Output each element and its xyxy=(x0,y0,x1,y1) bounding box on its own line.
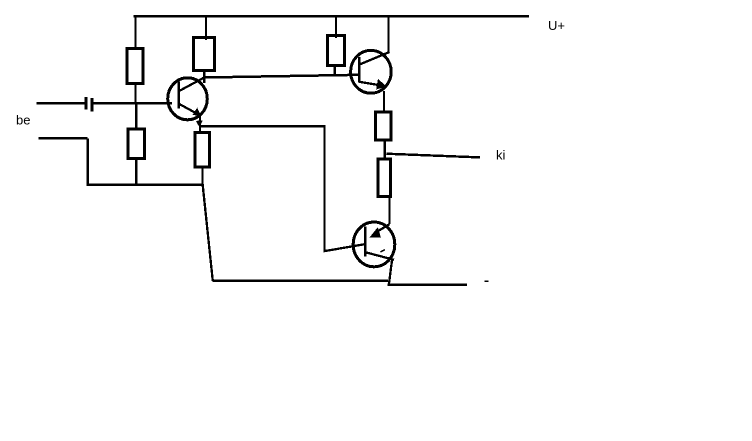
resistor R7 xyxy=(378,159,391,197)
wire bottom rail left segment xyxy=(213,280,389,282)
wire Q1 emitter node to Q3 base run xyxy=(199,125,326,127)
wire lower input corner down xyxy=(86,138,88,186)
resistor R2 xyxy=(194,38,215,71)
wire R7 bottom down to Q3 emitter xyxy=(388,197,390,225)
wire top rail down to R1 xyxy=(134,16,136,49)
resistor R1 xyxy=(127,49,143,84)
wire upper input lead xyxy=(37,102,85,105)
wire node down to R5 xyxy=(199,126,201,133)
wire capacitor to Q1 base xyxy=(94,102,173,105)
svg-text:ki: ki xyxy=(496,148,506,163)
wire R3 bottom to Q2 base wire xyxy=(334,66,336,77)
capacitor C1 xyxy=(86,97,92,112)
wire down toward Q3 base xyxy=(323,126,325,252)
wire Q1 emitter down to node xyxy=(199,115,201,127)
transistor Q2 xyxy=(351,50,392,93)
resistor R4 xyxy=(128,129,145,159)
wire R4 bottom down to lower-left rail xyxy=(135,159,137,187)
wire R6 down to ki node xyxy=(384,140,386,160)
resistor R3 xyxy=(328,36,345,66)
transistor Q1 xyxy=(168,78,208,120)
label minus terminal xyxy=(485,280,489,282)
wire R5 bottom to rail junction xyxy=(201,167,203,185)
svg-text:U+: U+ xyxy=(548,18,565,33)
wire R2 bottom to Q1 collector xyxy=(203,71,205,84)
junction arrow at Q1 emitter node xyxy=(196,121,203,127)
resistor R5 xyxy=(195,133,210,168)
wire slant down to bottom rail xyxy=(203,184,213,281)
resistor R6 xyxy=(376,112,392,140)
wire bottom rail right segment xyxy=(388,283,468,286)
wire top rail down to Q2 collector xyxy=(387,16,389,53)
wire top rail down to R3 xyxy=(335,16,337,38)
transistor Q3 xyxy=(353,222,395,267)
wire slant into Q3 base xyxy=(324,244,365,251)
svg-text:be: be xyxy=(16,113,30,128)
wire Q3 collector down to bottom rail xyxy=(389,260,392,285)
wire top rail down to R2 xyxy=(205,16,207,40)
wire ki output lead xyxy=(386,154,480,158)
wire top supply rail xyxy=(134,15,530,17)
wire Q1 collector to Q2 base xyxy=(204,75,359,78)
wire Q2 emitter down to R6 xyxy=(383,91,385,113)
wire lower input lead xyxy=(39,137,88,139)
wire R1 bottom to input node xyxy=(134,84,136,104)
wire lower-left rail xyxy=(87,184,204,186)
wire input node down to R4 xyxy=(135,103,137,130)
